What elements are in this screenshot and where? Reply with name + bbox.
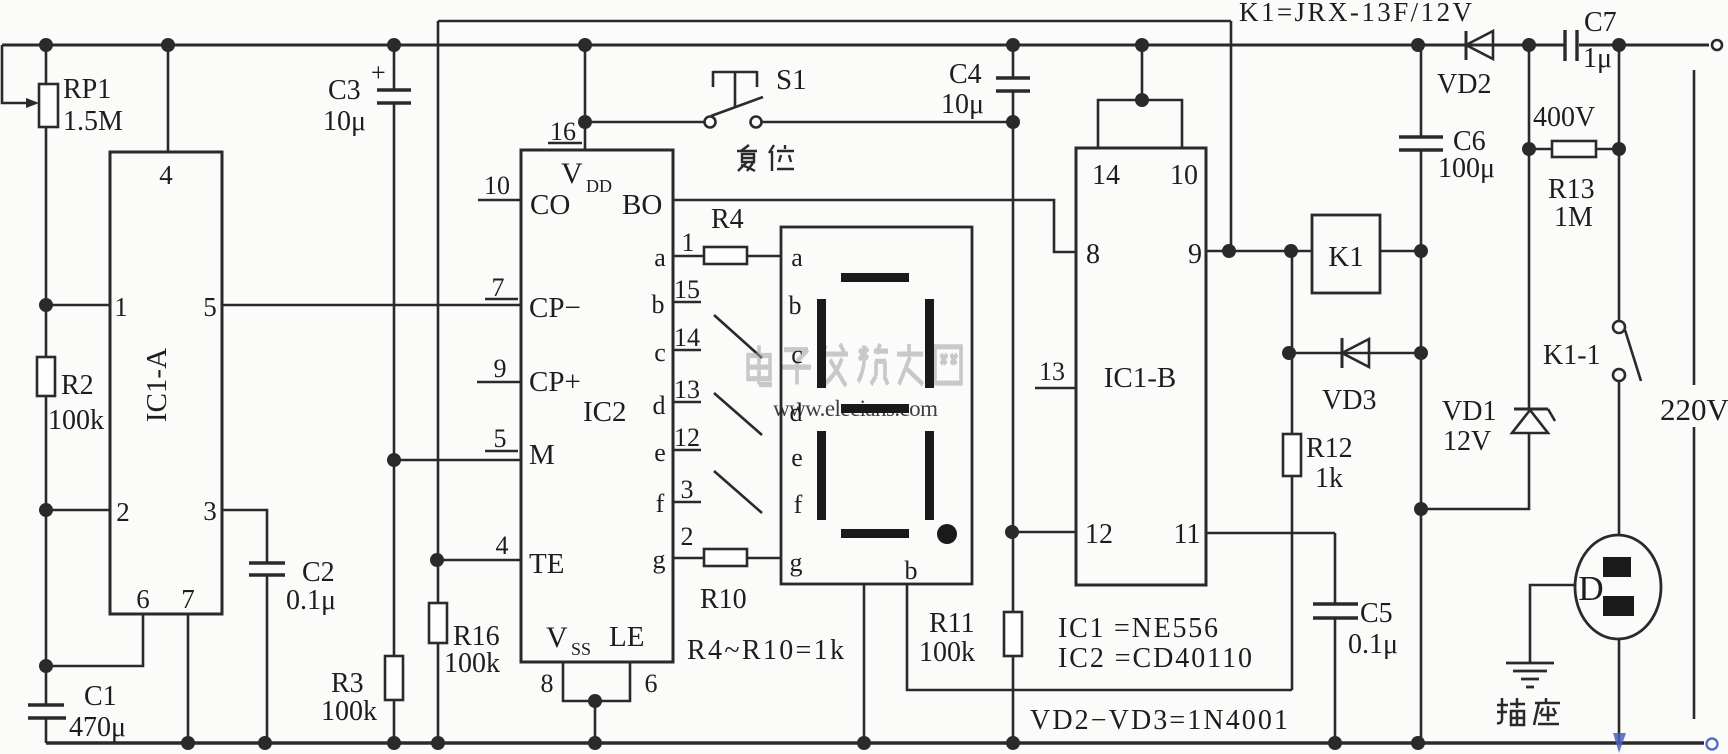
svg-text:V: V: [546, 621, 568, 654]
svg-text:c: c: [654, 338, 666, 367]
svg-text:DD: DD: [586, 176, 612, 196]
capacitor C4: [941, 59, 1030, 120]
stub IC1-B pin13: [1035, 387, 1076, 390]
svg-text:10: 10: [1170, 160, 1198, 191]
IC op-amp IC1-A: [110, 152, 222, 614]
wire socket bottom to rail: [1618, 639, 1621, 743]
wire S1 right to C4 net: [761, 121, 1013, 124]
junction pins 14/10 bracket: [1135, 93, 1149, 107]
junction R16 on bottom rail: [431, 736, 445, 750]
svg-text:11: 11: [1174, 519, 1201, 550]
wire bracket riser to top rail: [1141, 45, 1144, 100]
terminal top right: [1712, 40, 1722, 50]
junction S1 on Vdd riser: [578, 115, 592, 129]
display segment lower-right: [925, 431, 934, 520]
wire socket D pin to ground: [1530, 585, 1575, 663]
ground symbol: [1506, 663, 1554, 687]
svg-text:IC1-B: IC1-B: [1104, 362, 1177, 394]
junction M pin on C3 net: [387, 453, 401, 467]
display segment middle bar: [841, 404, 909, 413]
display segment upper-right: [925, 299, 934, 388]
junction C4 on rail: [1006, 38, 1020, 52]
junction R13 right: [1612, 142, 1626, 156]
svg-text:10: 10: [484, 171, 510, 200]
pin number labels IC2 left: [484, 171, 658, 698]
svg-text:1: 1: [114, 292, 128, 322]
svg-text:1k: 1k: [1315, 463, 1343, 494]
svg-text:100k: 100k: [321, 696, 377, 727]
label 220V: [1658, 385, 1728, 427]
svg-text:C4: C4: [949, 59, 982, 90]
svg-text:R4: R4: [711, 204, 744, 235]
svg-text:M: M: [529, 439, 555, 471]
junction pin9 and R12 net: [1284, 244, 1298, 258]
svg-text:IC2: IC2: [583, 396, 627, 428]
wire IC1-B pin11 to C5: [1206, 532, 1335, 535]
wire VD3 horizontal: [1289, 352, 1421, 355]
junction R11 on bottom rail: [1006, 736, 1020, 750]
resistor R16: [429, 603, 500, 679]
svg-text:14: 14: [674, 323, 700, 352]
svg-text:3: 3: [203, 496, 217, 526]
svg-text:R12: R12: [1306, 433, 1353, 464]
junction R3 on bottom rail: [387, 736, 401, 750]
socket (chazuo): [1575, 535, 1661, 639]
wire R13 horizontal: [1529, 148, 1619, 151]
svg-text:f: f: [656, 489, 665, 518]
svg-text:10μ: 10μ: [941, 89, 984, 120]
wire bottom rail: [46, 741, 1704, 745]
wire R16/TE net x=438: [437, 21, 440, 743]
svg-text:14: 14: [1092, 160, 1120, 191]
label chazuo (socket): [1497, 698, 1560, 725]
svg-text:C5: C5: [1360, 598, 1393, 629]
svg-text:c: c: [791, 340, 803, 369]
svg-text:R10: R10: [700, 584, 747, 615]
capacitor C6: [1399, 126, 1495, 184]
wire IC2 BO pin11 to IC1-B pin8: [673, 200, 1076, 252]
svg-text:1μ: 1μ: [1583, 43, 1612, 74]
capacitor C2: [249, 557, 336, 616]
svg-text:b: b: [905, 556, 918, 585]
wire IC1-B pin9 to K1: [1206, 250, 1312, 253]
junction VD3 left: [1282, 346, 1296, 360]
svg-text:2: 2: [116, 497, 130, 527]
wire pin8/6 to bottom rail: [594, 701, 597, 743]
svg-text:LE: LE: [609, 621, 644, 653]
7-segment display box: [781, 227, 972, 585]
svg-text:d: d: [653, 391, 666, 420]
svg-text:1.5M: 1.5M: [63, 106, 123, 137]
capacitor C7: [1565, 7, 1617, 74]
diode VD3: [1322, 338, 1376, 416]
wire C3/R3 net x=394: [393, 45, 396, 90]
svg-text:g: g: [790, 548, 803, 577]
svg-text:C7: C7: [1584, 7, 1617, 38]
svg-text:VD1: VD1: [1442, 396, 1496, 427]
display segment upper-left: [817, 299, 826, 388]
svg-text:d: d: [790, 398, 803, 427]
svg-text:C1: C1: [84, 681, 117, 712]
wire IC1-B pin12: [1012, 531, 1076, 534]
wire VD1 net x=1529 top: [1528, 45, 1531, 409]
junction K1-1 net on rail: [1612, 38, 1626, 52]
stub IC2 pin3 f: [673, 501, 701, 504]
svg-text:1: 1: [682, 228, 695, 257]
wire IC2 CO stub pin10: [478, 199, 521, 202]
svg-text:7: 7: [181, 584, 195, 614]
svg-text:6: 6: [645, 669, 658, 698]
label underline pin5: [485, 450, 518, 453]
resistor R13: [1533, 102, 1596, 233]
svg-text:D: D: [1578, 569, 1603, 608]
svg-text:16: 16: [550, 117, 576, 146]
watermark big: [748, 344, 961, 386]
junction pin12 on R11 net: [1005, 525, 1019, 539]
junction IC1-A pin2: [39, 503, 53, 517]
diode VD2: [1437, 31, 1493, 100]
svg-text:6: 6: [136, 584, 150, 614]
svg-text:BO: BO: [622, 189, 662, 221]
svg-text:5: 5: [494, 424, 507, 453]
wire RP1 wiper loop: [2, 45, 30, 103]
stub IC2 pin15 b: [673, 301, 701, 304]
wire IC2 M pin: [394, 459, 521, 462]
junction S1 on C4 net: [1006, 115, 1020, 129]
wire IC2 pin2 g to R10 to display: [673, 557, 704, 560]
svg-text:400V: 400V: [1533, 102, 1595, 133]
svg-text:4: 4: [496, 531, 509, 560]
svg-text:SS: SS: [571, 639, 591, 659]
wire IC1-A pin3 to C2: [222, 510, 267, 563]
svg-text:C2: C2: [302, 557, 335, 588]
junction VD3 right: [1414, 346, 1428, 360]
wire IC1-A pin7: [187, 614, 190, 743]
svg-text:b: b: [652, 290, 665, 319]
label underline pin16: [548, 142, 582, 145]
wire C5 vertical: [1334, 533, 1337, 604]
svg-text:R4~R10=1k: R4~R10=1k: [687, 635, 844, 666]
IC counter IC2: [521, 150, 673, 662]
slash bundle 3: [714, 471, 762, 513]
wire K1 right to VD net: [1380, 250, 1421, 253]
junction pin8/6 on bottom rail: [588, 736, 602, 750]
switch K1-1: [1613, 321, 1641, 381]
svg-text:12: 12: [674, 423, 700, 452]
junction C6 net on bottom rail: [1411, 736, 1425, 750]
wire IC1-A pin4: [167, 45, 170, 152]
svg-text:12: 12: [1085, 519, 1113, 550]
switch S1: [705, 71, 764, 128]
potentiometer RP1: [26, 74, 123, 137]
display segment bottom bar: [841, 529, 909, 538]
label fuwei (reset): [737, 145, 794, 171]
svg-text:100k: 100k: [444, 648, 500, 679]
wire K1-1 to socket: [1618, 381, 1621, 535]
svg-text:15: 15: [674, 275, 700, 304]
svg-text:0.1μ: 0.1μ: [1348, 629, 1398, 660]
junction C5 on bottom rail: [1328, 736, 1342, 750]
junction pin8/6 link: [588, 694, 602, 708]
svg-text:470μ: 470μ: [69, 712, 126, 743]
wire IC2 pin16 Vdd riser: [584, 45, 587, 150]
wire IC1-A pin2: [46, 509, 110, 512]
junction C6 net on rail: [1411, 38, 1425, 52]
svg-text:9: 9: [1188, 239, 1202, 270]
svg-text:R11: R11: [929, 608, 975, 639]
svg-text:VD2: VD2: [1437, 69, 1491, 100]
wire VD1 bottom to C6 net: [1421, 433, 1529, 509]
relay K1: [1312, 215, 1380, 293]
svg-text:1M: 1M: [1554, 202, 1593, 233]
svg-text:+: +: [371, 58, 386, 87]
junction K1 right: [1414, 244, 1428, 258]
junction R13 left: [1522, 142, 1536, 156]
label underline pin7: [485, 298, 518, 301]
svg-text:K1-1: K1-1: [1543, 340, 1601, 371]
wire IC1-B pins 14/10 bracket: [1098, 100, 1182, 148]
junction pin9 and top frame riser: [1222, 244, 1236, 258]
wire C2 to bottom rail: [266, 575, 269, 743]
stub IC2 pin14 c: [673, 349, 701, 352]
resistor R2: [37, 357, 104, 436]
svg-text:220V: 220V: [1660, 392, 1728, 427]
svg-text:100k: 100k: [48, 405, 104, 436]
svg-text:0.1μ: 0.1μ: [286, 585, 336, 616]
watermark blue circle: [1707, 739, 1718, 750]
svg-text:IC1-A: IC1-A: [141, 348, 173, 422]
svg-text:9: 9: [494, 354, 507, 383]
capacitor C5: [1313, 598, 1398, 660]
junction IC1-A pin1: [39, 298, 53, 312]
junction VD1 return on C6 net: [1414, 502, 1428, 516]
svg-text:S1: S1: [776, 64, 807, 96]
svg-text:100k: 100k: [919, 637, 975, 668]
pin number labels IC2 right: [674, 228, 700, 551]
resistor R12: [1283, 433, 1353, 494]
wire IC2 CP+ stub pin9: [477, 381, 521, 384]
svg-text:b: b: [789, 291, 802, 320]
svg-text:a: a: [791, 243, 803, 272]
junction VD1 net on rail: [1522, 38, 1536, 52]
capacitor C1: [28, 681, 126, 743]
junction C2 on bottom rail: [258, 736, 272, 750]
display decimal point: [937, 524, 957, 544]
svg-text:8: 8: [541, 669, 554, 698]
svg-text:5: 5: [203, 292, 217, 322]
wire C6/VD net x=1421: [1420, 45, 1423, 137]
svg-text:100μ: 100μ: [1438, 153, 1495, 184]
junction RP1 top on rail: [39, 38, 53, 52]
wire S1 left: [585, 121, 705, 124]
svg-text:10μ: 10μ: [323, 106, 366, 137]
wire display bottom left to rail: [863, 584, 866, 743]
wire top frame riser to pin9: [1230, 21, 1233, 251]
wire main top rail: [2, 44, 1565, 47]
junction IC1-A pin6: [39, 659, 53, 673]
wire IC2 pin8/pin6 link below box: [563, 662, 630, 701]
svg-text:e: e: [654, 438, 666, 467]
svg-text:2: 2: [681, 522, 694, 551]
svg-text:IC2 =CD40110: IC2 =CD40110: [1058, 643, 1252, 674]
zener diode VD1: [1442, 396, 1555, 457]
wire left vertical net x=46: [45, 45, 48, 84]
resistor R10: [700, 549, 747, 615]
stub IC2 pin12 e: [673, 449, 701, 452]
junction pin7 on bottom rail: [181, 736, 195, 750]
junction display common on bottom rail: [857, 736, 871, 750]
svg-text:R2: R2: [61, 370, 94, 401]
wire IC1-A pin5 to IC2 CP-: [222, 304, 521, 307]
svg-text:CP+: CP+: [529, 366, 581, 398]
display segment a (top bar): [841, 273, 909, 282]
svg-text:CP−: CP−: [529, 292, 581, 324]
wire IC2 pin1 a to R4 to display: [673, 255, 704, 258]
wire 220V line: [1693, 70, 1696, 719]
wire K1/VD3/R12 net x=1292: [1291, 251, 1294, 690]
svg-text:R3: R3: [331, 668, 364, 699]
slash bundle 1: [714, 315, 762, 358]
svg-text:e: e: [791, 443, 803, 472]
svg-text:g: g: [653, 545, 666, 574]
svg-text:13: 13: [1039, 357, 1065, 386]
svg-text:C3: C3: [328, 75, 361, 106]
wire top frame: [438, 20, 1231, 23]
svg-text:7: 7: [492, 273, 505, 302]
watermark blue arrow: [1613, 733, 1626, 753]
wire IC1-A pin6: [46, 614, 143, 666]
svg-text:4: 4: [159, 160, 173, 190]
slash bundle 2: [714, 393, 762, 435]
svg-text:TE: TE: [529, 548, 564, 580]
resistor R11: [919, 608, 1022, 668]
junction IC1-A pin4 on rail: [161, 38, 175, 52]
svg-text:8: 8: [1086, 239, 1100, 270]
wire display bottom b to R12 bottom: [907, 584, 1292, 690]
display segment lower-left: [817, 431, 826, 520]
svg-text:K1: K1: [1328, 241, 1363, 273]
svg-text:RP1: RP1: [63, 74, 111, 105]
svg-text:VD2−VD3=1N4001: VD2−VD3=1N4001: [1030, 705, 1288, 736]
svg-text:IC1 =NE556: IC1 =NE556: [1058, 613, 1218, 644]
svg-text:3: 3: [681, 475, 694, 504]
wire IC1-A pin1: [46, 304, 110, 307]
svg-text:VD3: VD3: [1322, 385, 1376, 416]
junction C3 on rail: [387, 38, 401, 52]
capacitor C3: [323, 58, 411, 137]
wire IC2 TE pin: [438, 559, 521, 562]
wire K1-1 net x=1619 top: [1618, 45, 1621, 321]
wire C4/R11 net x=1013: [1012, 45, 1015, 78]
svg-text:CO: CO: [530, 189, 570, 221]
junction IC1-B supply riser on rail: [1135, 38, 1149, 52]
svg-text:R13: R13: [1548, 174, 1595, 205]
svg-text:12V: 12V: [1443, 426, 1491, 457]
junction Vdd riser on rail: [578, 38, 592, 52]
junction TE pin on R16 net: [430, 553, 444, 567]
svg-text:13: 13: [674, 375, 700, 404]
svg-text:K1=JRX-13F/12V: K1=JRX-13F/12V: [1239, 0, 1473, 27]
svg-text:a: a: [654, 243, 666, 272]
resistor R4: [704, 204, 747, 264]
IC timer IC1-B: [1076, 148, 1206, 585]
svg-text:f: f: [794, 490, 803, 519]
stub IC2 pin13 d: [673, 401, 701, 404]
resistor R3: [321, 656, 403, 727]
svg-text:V: V: [561, 157, 583, 190]
